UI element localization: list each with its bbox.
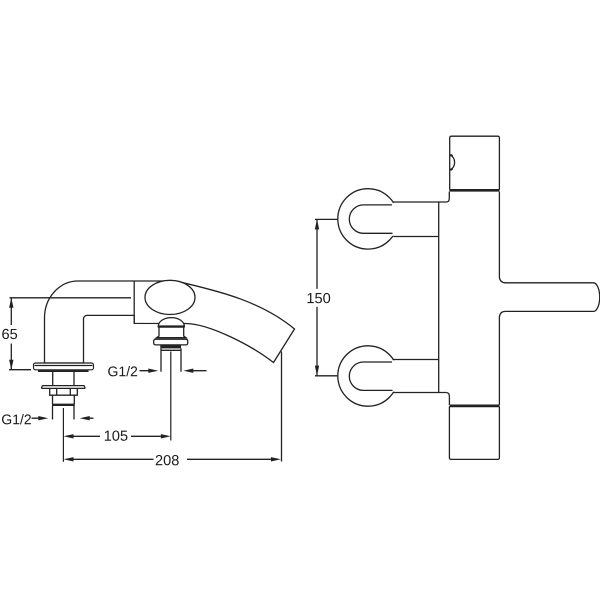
centre pipe centreline — [170, 352, 172, 441]
knob (diverter ball) — [145, 280, 195, 314]
centre flange shadow — [160, 346, 181, 349]
dome base thick line — [158, 325, 185, 327]
label G1/2 (g12l) — [2, 414, 31, 424]
left flange inner line — [35, 365, 93, 367]
label G1/2 (g12c) — [108, 366, 137, 376]
top chamfer into knob — [447, 192, 450, 202]
bath filler body outline (left figure: leg, tube, body, spout) — [45, 281, 295, 363]
left flange shadow — [38, 370, 89, 372]
centre flange — [154, 339, 188, 345]
knob bottom thick line — [449, 189, 499, 192]
label 105 (dim105) — [105, 431, 128, 441]
lower union inner hook — [349, 362, 392, 390]
dome below knob — [158, 318, 184, 327]
label 65 (dim65) — [2, 329, 17, 339]
bottom chamfer into bottom knob — [446, 393, 449, 406]
bottom knob top thick line — [450, 405, 500, 408]
valve body column left seam — [438, 202, 440, 393]
left tailpiece upper pipe — [53, 372, 74, 386]
spout outlet extension line — [281, 352, 283, 462]
dimension 150 — [315, 219, 338, 375]
lower pipe top edge — [393, 359, 439, 361]
valve body right edge — [498, 192, 500, 405]
valve bottom knob — [449, 406, 499, 460]
body section line — [133, 281, 135, 323]
upper union inner hook — [349, 205, 392, 233]
upper union pipe — [390, 203, 438, 236]
nut lower cylinder — [53, 395, 75, 404]
upper wall union flange — [338, 189, 398, 249]
left flange (escutcheon) — [34, 363, 94, 370]
knob indicator marker — [450, 155, 454, 169]
lower wall union flange — [338, 346, 398, 406]
tapered washer — [41, 386, 85, 389]
left threaded pipe — [53, 406, 75, 420]
centre tailpiece pipe — [161, 348, 181, 371]
collar — [157, 326, 186, 338]
dimension 65 top extension line (spout centreline) — [10, 297, 132, 299]
dimension 105 — [74, 435, 161, 437]
dimension 65 — [9, 369, 31, 371]
left pipe centreline — [62, 408, 64, 462]
label 150 (dim150) — [308, 293, 331, 303]
hex backnut — [50, 388, 78, 395]
dimension 208 — [73, 458, 271, 460]
label 208 (dim208) — [156, 455, 179, 465]
lower pipe bottom edge — [394, 392, 447, 394]
valve top knob — [450, 136, 500, 190]
outlet arm — [499, 278, 599, 317]
upper pipe bottom edge — [394, 236, 439, 238]
nut thick bottom — [52, 404, 75, 406]
lower union pipe — [390, 360, 438, 392]
upper pipe top edge — [393, 201, 447, 203]
